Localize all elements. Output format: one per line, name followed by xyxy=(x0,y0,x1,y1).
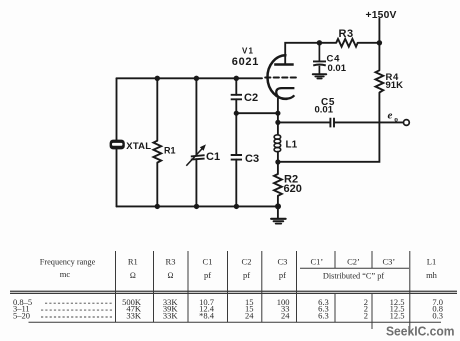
svg-text:C1: C1 xyxy=(203,256,213,266)
svg-text:33K: 33K xyxy=(126,311,142,321)
svg-text:mh: mh xyxy=(426,270,438,280)
svg-text:R1: R1 xyxy=(164,146,176,156)
svg-text:6021: 6021 xyxy=(232,56,259,68)
svg-text:R3: R3 xyxy=(339,28,354,40)
svg-text:0.3: 0.3 xyxy=(432,311,443,321)
svg-text:Ω: Ω xyxy=(168,271,174,280)
svg-text:C2’: C2’ xyxy=(347,256,360,266)
svg-text:24: 24 xyxy=(281,311,290,321)
svg-text:33K: 33K xyxy=(163,311,179,321)
svg-text:6.3: 6.3 xyxy=(318,311,329,321)
svg-text:XTAL: XTAL xyxy=(126,141,151,152)
svg-text:L1: L1 xyxy=(286,140,298,151)
svg-text:pf: pf xyxy=(204,270,211,280)
svg-text:C1: C1 xyxy=(206,151,220,163)
svg-text:+150V: +150V xyxy=(366,10,397,21)
svg-text:pf: pf xyxy=(243,270,250,280)
svg-text:2: 2 xyxy=(364,311,368,321)
svg-text:Ω: Ω xyxy=(130,271,136,280)
svg-text:C3: C3 xyxy=(245,153,259,165)
svg-text:R1: R1 xyxy=(128,256,138,266)
svg-text:C3’: C3’ xyxy=(383,256,396,266)
svg-text:12.5: 12.5 xyxy=(390,311,405,321)
svg-text:91K: 91K xyxy=(386,80,404,91)
svg-text:C2: C2 xyxy=(242,256,252,266)
svg-text:Frequency range: Frequency range xyxy=(40,257,96,266)
svg-text:24: 24 xyxy=(245,311,254,321)
svg-text:R3: R3 xyxy=(166,256,176,266)
svg-text:620: 620 xyxy=(284,183,302,195)
svg-text:C3: C3 xyxy=(277,256,287,266)
svg-text:L1: L1 xyxy=(427,256,436,266)
svg-text:e: e xyxy=(388,110,393,122)
svg-text:pf: pf xyxy=(279,270,286,280)
svg-text:C1’: C1’ xyxy=(311,256,324,266)
svg-text:*8.4: *8.4 xyxy=(199,311,215,321)
svg-text:0.01: 0.01 xyxy=(315,105,334,116)
svg-text:Distributed “C” pf: Distributed “C” pf xyxy=(323,271,385,280)
svg-text:C2: C2 xyxy=(244,92,258,104)
svg-text:SeekIC.com: SeekIC.com xyxy=(386,323,455,338)
svg-text:mc: mc xyxy=(60,269,71,279)
svg-text:o: o xyxy=(394,115,398,124)
svg-text:5–20: 5–20 xyxy=(13,311,30,321)
svg-text:0.01: 0.01 xyxy=(328,63,347,74)
svg-text:V1: V1 xyxy=(242,47,254,56)
